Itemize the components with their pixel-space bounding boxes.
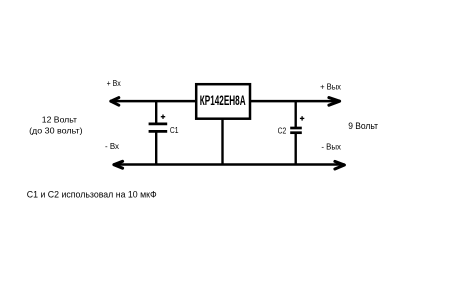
- capacitor C1: [149, 124, 168, 131]
- input voltage note line 2: (до 30 вольт): [29, 125, 83, 135]
- node label + Вх: [107, 78, 122, 88]
- IC U1 voltage regulator КР142ЕН8А body: [196, 84, 250, 119]
- label C2: [278, 125, 287, 135]
- svg-text:С2: С2: [278, 125, 287, 135]
- ground rail left terminal arrow: [114, 161, 123, 168]
- node label - Вх: [105, 141, 120, 151]
- wire: C1 bottom plate to ground rail: [155, 131, 157, 166]
- svg-text:- Вх: - Вх: [105, 141, 120, 151]
- ground rail right terminal arrow: [335, 161, 345, 169]
- node label + Вых: [320, 82, 341, 92]
- svg-text:С1 и С2 использовал на 10 мкФ: С1 и С2 использовал на 10 мкФ: [27, 190, 157, 200]
- output voltage note: 9 Вольт: [348, 121, 378, 131]
- wire: top rail to C2 top plate: [295, 100, 297, 128]
- input voltage note line 1: 12 Вольт: [42, 114, 77, 124]
- IC value label КР142ЕН8А: [200, 93, 246, 108]
- wire: IC ground pin to bottom rail: [221, 119, 223, 166]
- svg-text:C1: C1: [170, 125, 179, 135]
- svg-text:+ Вх: + Вх: [107, 78, 122, 88]
- footnote: С1 и С2 использовал на 10 мкФ: [27, 190, 157, 200]
- output + terminal arrow: [329, 98, 340, 106]
- capacitor C2: [290, 128, 302, 133]
- wire: C2 bottom plate to ground rail: [295, 133, 297, 166]
- svg-text:- Вых: - Вых: [321, 142, 341, 152]
- svg-text:(до 30 вольт): (до 30 вольт): [29, 125, 83, 135]
- wire: +input rail to IC input pin: [110, 100, 196, 103]
- input + terminal arrow: [111, 98, 119, 106]
- wire: common ground rail (bottom): [113, 163, 344, 165]
- svg-text:КР142ЕН8А: КР142ЕН8А: [200, 93, 246, 108]
- wire: IC output pin to +output rail: [251, 100, 340, 103]
- svg-text:12 Вольт: 12 Вольт: [42, 114, 77, 124]
- svg-text:9 Вольт: 9 Вольт: [348, 121, 378, 131]
- svg-text:+ Вых: + Вых: [320, 82, 341, 92]
- wire: top rail to C1 top plate: [155, 100, 157, 124]
- polarity mark + of C1: [161, 115, 165, 119]
- polarity mark + of C2: [300, 116, 304, 120]
- label C1: [170, 125, 179, 135]
- node label - Вых: [321, 142, 341, 152]
